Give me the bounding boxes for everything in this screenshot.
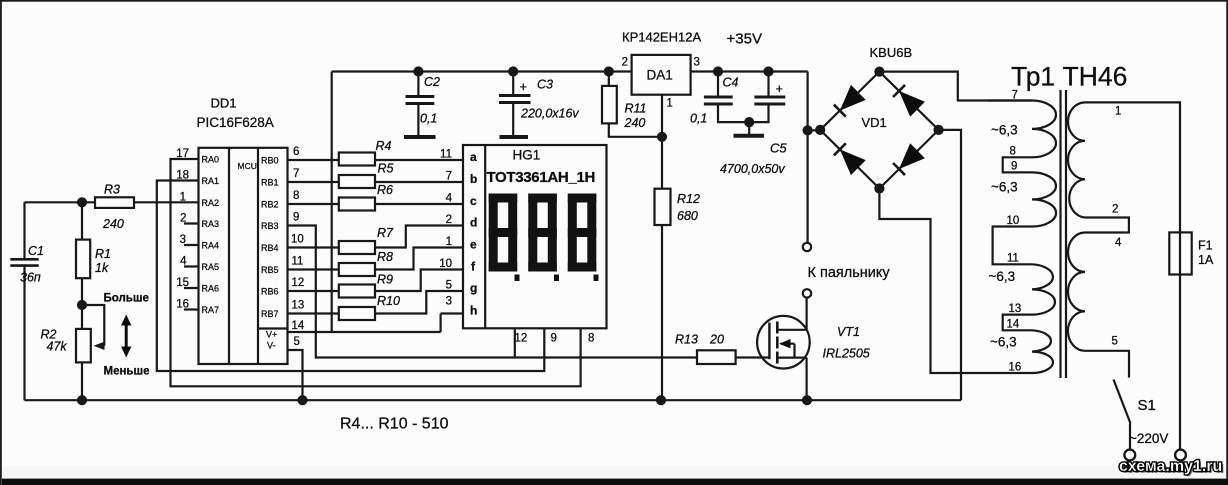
svg-text:R6: R6 (377, 183, 393, 197)
svg-text:1: 1 (1115, 106, 1121, 118)
svg-text:3: 3 (180, 234, 186, 246)
svg-text:1: 1 (446, 236, 452, 248)
switch S1 (1114, 380, 1186, 461)
svg-text:RA1: RA1 (202, 176, 220, 186)
svg-text:RA5: RA5 (202, 262, 220, 272)
svg-text:RB2: RB2 (261, 200, 279, 210)
svg-text:5: 5 (294, 336, 300, 348)
wire: bridge bottom AC to transformer tap 16 (879, 189, 1032, 374)
svg-text:1A: 1A (1198, 253, 1214, 267)
svg-text:DA1: DA1 (647, 68, 673, 83)
wire: unused stubs RA3,RA4,RA5,RA6,RA7 (184, 224, 199, 310)
labels R4-R10 (376, 139, 400, 308)
svg-text:S1: S1 (1138, 397, 1156, 414)
svg-text:12: 12 (292, 277, 305, 289)
svg-text:VD1: VD1 (862, 115, 887, 130)
diode VD1.4 (bottom-right edge, cathode to bottom corner) (892, 143, 925, 176)
svg-text:К паяльнику: К паяльнику (808, 265, 891, 281)
svg-text:RB0: RB0 (261, 156, 279, 166)
capacitor C3 (499, 72, 531, 138)
svg-text:DD1: DD1 (211, 96, 237, 111)
svg-text:R10: R10 (377, 294, 400, 308)
svg-text:RA7: RA7 (202, 305, 220, 315)
wire: R7 output to segment d (375, 226, 462, 248)
svg-text:13: 13 (1009, 303, 1022, 315)
IC DD1 PIC16F628A MCU (199, 148, 288, 364)
svg-text:KBU6B: KBU6B (870, 45, 913, 60)
svg-text:R13: R13 (675, 333, 698, 347)
svg-text:C4: C4 (723, 76, 739, 90)
svg-text:4: 4 (180, 256, 187, 268)
svg-text:16: 16 (176, 299, 189, 311)
svg-text:VT1: VT1 (837, 325, 860, 339)
wire: MCU V- (pin 5) to ground (288, 350, 303, 400)
resistor R6 (339, 198, 375, 211)
svg-text:17: 17 (176, 148, 189, 160)
regulator DA1 (632, 55, 691, 95)
svg-text:схема.my1.ru: схема.my1.ru (1119, 458, 1222, 475)
svg-text:IRL2505: IRL2505 (823, 347, 870, 361)
svg-text:4: 4 (1115, 237, 1122, 249)
svg-text:2: 2 (1112, 204, 1118, 216)
svg-text:~6,3: ~6,3 (989, 269, 1016, 284)
svg-text:14: 14 (1007, 319, 1020, 331)
wire: R10 output to segment g (375, 291, 462, 314)
svg-text:R12: R12 (677, 192, 700, 206)
svg-text:16: 16 (1009, 362, 1022, 374)
svg-text:RB5: RB5 (261, 265, 279, 275)
svg-text:RB4: RB4 (261, 243, 279, 253)
svg-text:C2: C2 (424, 75, 440, 89)
transistor VT1 IRL2505 (757, 298, 810, 401)
svg-text:R3: R3 (104, 183, 120, 197)
wire: RB2 to R6 to segment c (288, 203, 463, 205)
svg-text:5: 5 (1112, 336, 1118, 348)
svg-text:MCU: MCU (238, 161, 257, 171)
svg-text:V-: V- (267, 341, 276, 351)
svg-text:d: d (470, 216, 477, 230)
svg-text:47k: 47k (47, 340, 68, 354)
wire: RB1 to R5 to segment b (288, 181, 463, 183)
svg-text:RB1: RB1 (261, 178, 279, 188)
svg-text:4700,0х50v: 4700,0х50v (720, 162, 785, 176)
svg-text:2: 2 (446, 214, 452, 226)
svg-text:~6,3: ~6,3 (991, 180, 1018, 195)
svg-text:RA2: RA2 (202, 198, 220, 208)
resistor R8 (339, 263, 375, 276)
svg-text:20: 20 (709, 333, 724, 347)
svg-text:0,1: 0,1 (690, 112, 707, 126)
svg-text:13: 13 (292, 300, 305, 312)
svg-text:+: + (776, 81, 784, 96)
right pin numbers 6,7,8,9,10,11,12,13,14,5 (291, 146, 305, 348)
transformer Tp1 left winding section 7-8 (988, 101, 1056, 158)
transformer Tp1 right winding section 1-2 (1068, 102, 1085, 217)
svg-text:RA6: RA6 (202, 284, 220, 294)
wire: RB4 to R7 (288, 246, 339, 248)
pin names RB0-RB7, V+, V- (261, 156, 279, 351)
svg-text:R1: R1 (95, 247, 111, 261)
svg-text:C1: C1 (28, 244, 44, 258)
svg-text:R4: R4 (376, 139, 392, 153)
wire: taps 10-11 bracket (993, 227, 1032, 265)
svg-text:RB3: RB3 (261, 221, 279, 231)
capacitor C1 (10, 259, 38, 400)
svg-text:R7: R7 (377, 226, 394, 240)
resistor R3 (95, 197, 134, 208)
node: soldering iron connector terminals (803, 243, 811, 298)
svg-text:7: 7 (1012, 90, 1018, 102)
svg-text:PIC16F628A: PIC16F628A (197, 115, 274, 130)
resistor R10 (339, 307, 375, 320)
wire: taps 2-4 bracket (1085, 218, 1129, 233)
svg-text:~6,3: ~6,3 (990, 335, 1017, 350)
svg-text:220,0х16v: 220,0х16v (520, 107, 579, 121)
svg-text:11: 11 (440, 149, 452, 161)
svg-text:1: 1 (180, 191, 186, 203)
svg-text:3: 3 (446, 296, 452, 308)
resistor R1 (76, 240, 90, 279)
svg-text:R4... R10 - 510: R4... R10 - 510 (340, 416, 449, 433)
svg-text:e: e (470, 238, 477, 252)
svg-text:c: c (470, 194, 477, 208)
svg-text:3: 3 (694, 57, 700, 69)
svg-text:V+: V+ (266, 330, 277, 340)
svg-text:10: 10 (291, 234, 304, 246)
arrow up/down between Larger/Smaller (121, 315, 131, 358)
svg-text:11: 11 (292, 256, 304, 268)
svg-text:2: 2 (180, 213, 186, 225)
resistor R5 (339, 175, 375, 188)
svg-text:15: 15 (176, 277, 189, 289)
svg-text:F1: F1 (1198, 239, 1213, 253)
svg-text:9: 9 (1011, 161, 1017, 173)
svg-text:C3: C3 (537, 78, 553, 92)
svg-text:Больше: Больше (104, 293, 149, 305)
svg-text:18: 18 (176, 170, 189, 182)
7-segment digits 888 on HG1 (489, 194, 599, 282)
resistor R12 (655, 189, 671, 401)
svg-text:Меньше: Меньше (104, 366, 150, 378)
capacitor C2 (404, 72, 436, 138)
wire: RB3 (pin 9) gate line to R13 and display pin 12 (288, 226, 698, 358)
svg-text:~220V: ~220V (1129, 431, 1168, 446)
diode VD1.2 (top-right edge, cathode to top corner) (892, 83, 925, 116)
transformer core (1061, 90, 1067, 378)
svg-text:9: 9 (293, 212, 299, 224)
wire: taps 13-14 bracket (1003, 315, 1032, 331)
transformer Tp1 left winding section 11-13 (1032, 264, 1055, 314)
svg-text:R11: R11 (625, 102, 647, 116)
svg-text:7: 7 (446, 171, 452, 183)
display HG1 box (463, 145, 607, 328)
svg-text:1: 1 (667, 98, 673, 110)
transformer Tp1 right winding section 4-5 (1068, 233, 1085, 351)
svg-text:HG1: HG1 (513, 148, 541, 163)
wire: RA2 / R3 row with node A (25, 198, 199, 259)
svg-text:5: 5 (446, 280, 452, 292)
diode bridge VD1 frame (816, 68, 942, 193)
svg-text:14: 14 (292, 320, 305, 332)
svg-text:8: 8 (588, 333, 594, 345)
svg-text:RB7: RB7 (261, 309, 279, 319)
display pin letters a-h (470, 150, 477, 318)
svg-text:RA0: RA0 (202, 155, 220, 165)
svg-text:240: 240 (624, 116, 646, 130)
svg-text:0,1: 0,1 (420, 112, 437, 126)
resistor R9 (339, 285, 375, 298)
resistor R11 and adj node wiring (602, 72, 666, 189)
potentiometer R2 (76, 329, 105, 400)
svg-text:RA3: RA3 (202, 219, 220, 229)
svg-text:6: 6 (293, 146, 299, 158)
wire: R8 output to segment e (375, 248, 462, 270)
capacitor C5 (734, 72, 786, 136)
labels ~6,3 (989, 123, 1018, 350)
svg-text:R5: R5 (378, 162, 394, 176)
capacitor C4 (704, 72, 749, 123)
wire: transformer pin 1 to fuse F1 (1085, 102, 1180, 449)
svg-text:R8: R8 (377, 250, 393, 264)
diode VD1.1 (top-left edge, cathode to + corner) (832, 85, 865, 118)
transformer Tp1 left winding section 14-16 (1032, 330, 1053, 373)
svg-text:7: 7 (293, 168, 299, 180)
svg-text:ТОТ3361АН_1Н: ТОТ3361АН_1Н (487, 169, 596, 186)
wire: taps 8-9 bracket (1003, 157, 1032, 172)
svg-text:9: 9 (551, 333, 557, 345)
display pin numbers a-h (439, 149, 452, 308)
svg-text:12: 12 (515, 333, 528, 345)
wire: RB0 to R4 to segment a (288, 159, 463, 161)
wire: transformer pin 5 to switch S1 (1085, 351, 1129, 378)
resistor R7 (339, 241, 375, 254)
svg-text:8: 8 (293, 190, 299, 202)
wire: RA1 (pin 18) to display pin 9 (157, 181, 545, 372)
svg-text:C5: C5 (770, 141, 787, 156)
resistor R13 (697, 350, 769, 364)
svg-text:2: 2 (622, 57, 628, 69)
resistor R4 (339, 153, 375, 166)
left pin numbers 17,18,1,2,3,4,15,16 (176, 148, 189, 311)
svg-text:RB6: RB6 (261, 287, 279, 297)
svg-text:h: h (470, 304, 477, 318)
svg-text:+: + (520, 79, 528, 94)
wire: RB7 to R10 (288, 312, 339, 314)
svg-text:240: 240 (102, 217, 124, 231)
svg-text:+35V: +35V (727, 31, 762, 48)
svg-text:11: 11 (1007, 253, 1019, 265)
svg-text:Тр1 ТН46: Тр1 ТН46 (1011, 62, 1127, 92)
svg-text:680: 680 (677, 209, 698, 223)
svg-text:КР142ЕН12А: КР142ЕН12А (622, 30, 701, 45)
svg-text:10: 10 (439, 258, 452, 270)
svg-text:g: g (470, 281, 477, 295)
svg-text:~6,3: ~6,3 (991, 123, 1018, 138)
wire: +5V rail from DA1 output to MCU V+ and display h (288, 68, 632, 333)
svg-text:4: 4 (446, 193, 453, 205)
svg-text:8: 8 (1010, 146, 1016, 158)
svg-text:10: 10 (1007, 215, 1020, 227)
svg-text:b: b (470, 172, 477, 186)
watermark (1119, 458, 1224, 477)
wire: +35V drop to soldering-iron terminal and bridge + corner (804, 72, 821, 243)
wire: R1 to R2 junction and wiper loop (78, 278, 104, 346)
pin names RA0-RA7 (202, 155, 220, 316)
ground / common bottom rail (25, 396, 962, 404)
wire: RA0 (pin 17) to display pin 8 (171, 159, 581, 386)
fuse F1 (1169, 232, 1191, 274)
wire: R9 output to segment f (375, 270, 462, 292)
wire: bridge minus corner to ground rail (939, 130, 961, 400)
svg-text:a: a (470, 150, 477, 164)
svg-text:R9: R9 (377, 273, 393, 287)
wire: bridge top AC to transformer tap 7 (879, 72, 1032, 101)
svg-text:RA4: RA4 (202, 241, 220, 251)
wire: RB5 to R8 (288, 268, 339, 270)
svg-text:36п: 36п (20, 271, 41, 285)
svg-text:1k: 1k (95, 261, 109, 275)
transformer Tp1 left winding section 9-10 (1032, 172, 1056, 226)
wire: RB6 to R9 (288, 290, 339, 292)
wire: +35V rail right of DA1 (691, 68, 808, 76)
diode VD1.3 (bottom-left edge, cathode to + corner) (832, 142, 865, 175)
